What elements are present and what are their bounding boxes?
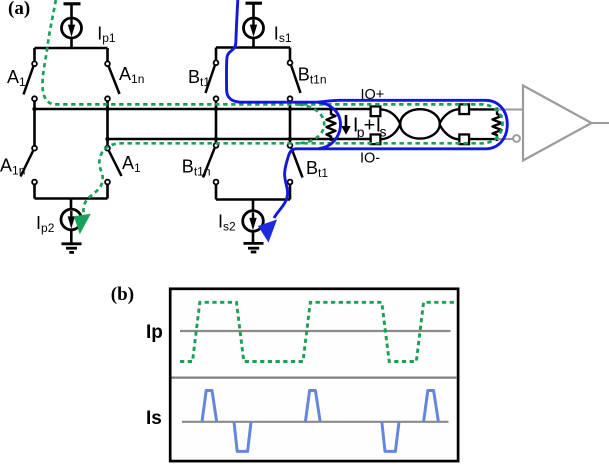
green waveform Ip	[180, 302, 456, 361]
inverting bubble	[513, 135, 520, 142]
svg-text:+: +	[364, 115, 376, 137]
wire	[252, 232, 255, 244]
current source Is1	[244, 18, 264, 38]
svg-text:s: s	[380, 123, 387, 139]
green loop at R1	[299, 105, 324, 144]
resistor R1	[327, 107, 336, 141]
wire	[106, 184, 109, 198]
blue pulse down 2	[382, 422, 399, 452]
wire rail 1	[35, 108, 370, 111]
svg-text:(b): (b)	[111, 284, 134, 305]
svg-text:(a): (a)	[8, 0, 30, 19]
wire gray op-amp input -	[497, 138, 513, 140]
wire	[70, 230, 73, 244]
wire	[215, 184, 218, 199]
node bar B top	[216, 46, 290, 49]
baseline Is	[182, 421, 449, 423]
wire	[70, 38, 73, 48]
wire gray op-amp input +	[497, 109, 523, 111]
pad square IO- right	[459, 134, 469, 144]
wire	[33, 101, 36, 146]
current arrow Ip+Is	[341, 115, 350, 135]
current source Ip2	[61, 209, 82, 230]
switch A1 top-left	[24, 61, 37, 101]
pad square IO- left	[371, 134, 381, 144]
blue waveform Is pulse up 1	[202, 391, 217, 422]
switch A1n bottom-left	[21, 146, 37, 185]
blue pulse up 3	[424, 391, 439, 422]
svg-text:Is: Is	[146, 408, 162, 429]
supply bar Ip1	[64, 2, 81, 5]
node bar A top	[35, 47, 108, 50]
waveform box	[170, 289, 458, 461]
blue Is current path	[226, 0, 507, 218]
blue arrowhead	[258, 220, 277, 243]
pad square IO+ left	[371, 106, 381, 116]
wire rail 2	[108, 138, 370, 141]
ground Ip2	[62, 244, 82, 253]
blue loop at R1	[318, 102, 341, 148]
blue pulse up 2	[305, 391, 320, 422]
twisted pair	[381, 109, 458, 139]
current source Is2	[243, 211, 264, 232]
green Ip current path	[42, 0, 502, 213]
wire	[252, 200, 255, 212]
node dots	[32, 107, 292, 141]
supply bar Is1	[246, 2, 263, 5]
switch Bt1n bottom-left	[203, 143, 218, 184]
separator line	[172, 377, 457, 379]
switch Bt1n top-right	[288, 60, 301, 101]
op-amp U1	[523, 86, 592, 161]
wire output	[592, 122, 609, 124]
switch A1n top-right	[105, 61, 119, 101]
node bar A bottom	[35, 197, 108, 200]
svg-text:Ip: Ip	[146, 322, 163, 343]
switch A1 bottom-right	[105, 146, 121, 185]
resistor R2	[493, 108, 502, 142]
pad square IO+ right	[459, 104, 469, 114]
wire	[252, 38, 255, 48]
wire	[252, 3, 255, 18]
wire	[106, 48, 109, 61]
ground Is2	[244, 243, 264, 252]
wire	[470, 138, 497, 140]
baseline Ip	[180, 330, 451, 332]
wire	[289, 101, 292, 143]
svg-text:IO-: IO-	[360, 151, 380, 167]
blue pulse down 1	[234, 422, 251, 452]
switch Bt1 bottom-right	[288, 143, 303, 184]
switch Bt1 top-left	[206, 60, 219, 101]
wire	[289, 48, 292, 61]
wire	[215, 48, 218, 61]
wire	[106, 101, 109, 146]
wire	[289, 184, 292, 199]
wire	[33, 48, 36, 61]
wire	[70, 199, 73, 210]
wire	[215, 101, 218, 143]
wire	[470, 108, 497, 110]
wire	[70, 4, 73, 18]
green arrowhead	[74, 214, 91, 234]
label Ip+Is	[353, 115, 387, 141]
wire	[33, 184, 36, 198]
node bar B bottom	[216, 198, 290, 201]
current source Ip1	[62, 18, 82, 38]
